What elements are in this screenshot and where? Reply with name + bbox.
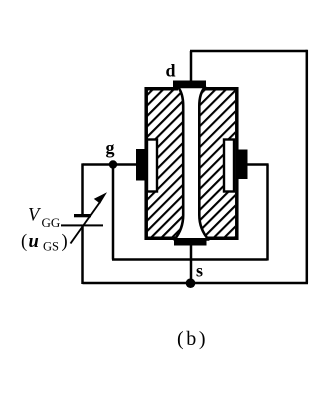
label VGG bbox=[28, 206, 60, 231]
wire: drain stem from d electrode up to top rail bbox=[190, 51, 193, 82]
svg-text:(: ( bbox=[21, 232, 27, 252]
svg-text:GG: GG bbox=[42, 215, 61, 230]
wire: inner right vertical up to right gate lead bbox=[266, 165, 269, 261]
device border top-left segment bbox=[145, 87, 179, 91]
wire: right gate lead bbox=[247, 163, 269, 166]
battery VGG top plate (short thick) bbox=[74, 214, 91, 217]
wire: top rail from stem to right rail bbox=[190, 50, 307, 53]
source electrode (bottom black bar) bbox=[174, 238, 207, 246]
right gate p-region (white) bbox=[224, 140, 234, 192]
right gate electrode (black bar) bbox=[239, 150, 248, 180]
svg-text:d: d bbox=[166, 61, 176, 81]
battery VGG bottom plate (long thin) bbox=[61, 224, 103, 226]
wire: inner vertical from g node down bbox=[112, 165, 115, 260]
device border bottom-right segment bbox=[208, 236, 239, 240]
channel white region with flares bbox=[175, 87, 209, 240]
device border bottom-left segment bbox=[145, 236, 176, 240]
wire: right outer rail down bbox=[306, 50, 309, 283]
svg-text:): ) bbox=[62, 232, 68, 252]
svg-text:(b): (b) bbox=[177, 328, 208, 350]
wire: left outer branch lower (battery bottom to bottom rail) bbox=[81, 226, 84, 284]
device border right bbox=[235, 87, 239, 240]
device border left bbox=[144, 87, 148, 240]
wire: gate lead from left corner to left gate electrode bbox=[83, 163, 138, 166]
svg-text:u: u bbox=[29, 232, 39, 252]
svg-text:GS: GS bbox=[43, 240, 59, 254]
battery variable arrow bbox=[71, 192, 108, 243]
drain electrode (top black bar) bbox=[173, 81, 206, 89]
wire: left outer branch upper (corner to battery top) bbox=[81, 163, 84, 214]
svg-text:g: g bbox=[106, 138, 115, 158]
node g junction dot bbox=[109, 160, 117, 168]
label (uGS) bbox=[21, 232, 68, 254]
left gate electrode (black bar) bbox=[136, 149, 146, 181]
wire: bottom outer rail bbox=[83, 282, 309, 285]
node s junction dot bbox=[186, 278, 196, 288]
svg-text:s: s bbox=[196, 261, 203, 281]
left gate p-region (white) bbox=[147, 140, 157, 192]
wire: source stem from s electrode down to bottom rail bbox=[190, 243, 193, 283]
device border top-right segment bbox=[205, 87, 239, 91]
wire: inner bottom run bbox=[112, 258, 268, 261]
semiconductor body hatched fill bbox=[146, 89, 235, 239]
